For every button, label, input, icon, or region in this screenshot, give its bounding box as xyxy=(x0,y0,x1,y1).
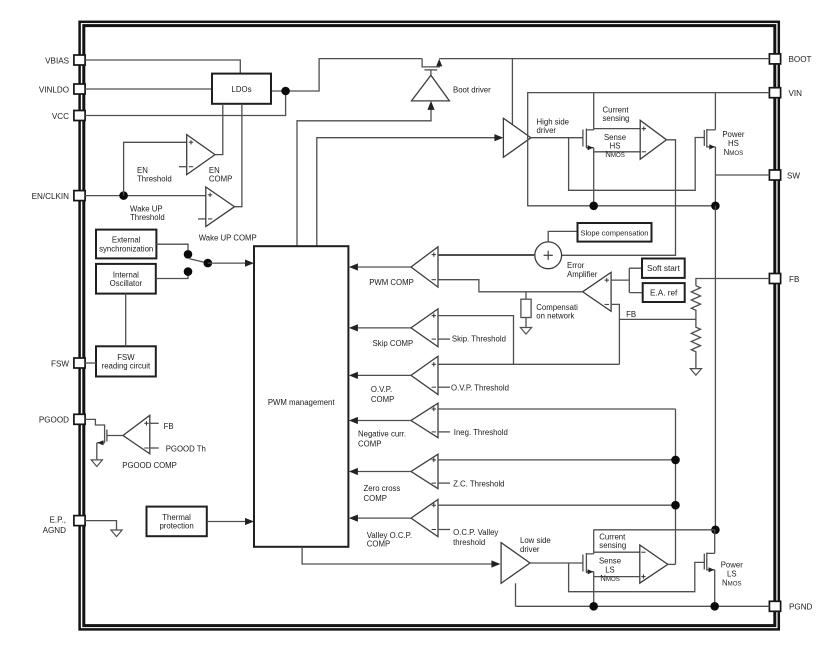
svg-text:driver: driver xyxy=(520,545,540,554)
svg-text:Threshold: Threshold xyxy=(130,213,165,222)
op-amp wake up COMP xyxy=(198,187,235,227)
op-amp LS current sense comparator xyxy=(640,545,668,583)
svg-text:Slope compensation: Slope compensation xyxy=(581,228,649,237)
wire summing node to PWM COMP + xyxy=(438,254,535,256)
node LDO output junction xyxy=(281,87,290,96)
svg-text:VCC: VCC xyxy=(52,112,69,121)
svg-text:threshold: threshold xyxy=(453,538,485,547)
svg-text:sensing: sensing xyxy=(599,541,626,550)
svg-text:VIN: VIN xyxy=(789,89,803,98)
svg-text:NMOS: NMOS xyxy=(724,148,744,157)
wire HS comparator output to summing node xyxy=(562,140,676,256)
svg-text:LS: LS xyxy=(605,565,615,574)
transistor boot diode-FET xyxy=(422,59,442,76)
svg-text:Boot driver: Boot driver xyxy=(453,85,491,94)
comparator stack: op-amp PWM COMP xyxy=(349,247,535,287)
wire EN/CLKIN to wake up comp xyxy=(85,195,206,197)
op-amp high side driver U-HS xyxy=(503,118,531,157)
pin VINLDO xyxy=(74,84,85,94)
op-amp input polarity marks xyxy=(144,126,646,578)
wire thermal protection to PWM management xyxy=(207,521,247,523)
ground PGOOD FET xyxy=(91,460,102,467)
pin VIN xyxy=(769,88,780,98)
op-amp low side driver xyxy=(501,543,530,584)
op-amp error amplifier xyxy=(583,272,612,311)
pin SW xyxy=(769,170,780,180)
node HS sense source junction xyxy=(589,202,598,211)
wire LS driver output to gates xyxy=(530,562,704,591)
wire EN comp output to LDOs xyxy=(215,104,223,155)
svg-text:Threshold: Threshold xyxy=(137,175,172,184)
box thermal protection xyxy=(147,507,207,537)
svg-text:on network: on network xyxy=(536,312,574,321)
wire summing node to slope compensation xyxy=(548,231,577,242)
wire VIN pin to HS drain rail xyxy=(715,92,769,94)
svg-text:COMP: COMP xyxy=(367,540,390,549)
wire EN junction to EN comp + xyxy=(124,142,187,195)
pin VCC xyxy=(74,111,85,121)
wire PGOOD pin to pull-down FET xyxy=(85,419,105,428)
wire PGND rail xyxy=(516,605,770,607)
wire EA output to PWM COMP - xyxy=(438,280,583,292)
node switch contact A xyxy=(184,250,193,259)
svg-text:Amplifier: Amplifier xyxy=(567,270,598,279)
summing node slope adder xyxy=(535,242,562,269)
svg-text:HS: HS xyxy=(728,139,739,148)
svg-text:PGOOD COMP: PGOOD COMP xyxy=(122,461,177,470)
node switch contact B xyxy=(184,267,193,276)
wire int osc to switch xyxy=(156,276,188,279)
svg-text:E.A. ref: E.A. ref xyxy=(650,289,678,298)
svg-text:NMOS: NMOS xyxy=(600,574,620,583)
svg-text:NMOS: NMOS xyxy=(722,578,742,587)
ground AGND xyxy=(111,530,122,537)
resistor R1 FB top xyxy=(691,286,700,320)
svg-text:O.V.P.: O.V.P. xyxy=(371,385,392,394)
op-amp PGOOD COMP xyxy=(123,415,159,454)
wire FB pin to divider xyxy=(696,279,770,286)
svg-text:COMP: COMP xyxy=(371,395,394,404)
box PWM management xyxy=(254,246,348,547)
pin E.P. AGND xyxy=(74,516,85,526)
switch blade oscillator select xyxy=(190,259,208,263)
svg-text:FSW: FSW xyxy=(51,359,69,368)
svg-text:Skip. Threshold: Skip. Threshold xyxy=(452,334,506,343)
svg-text:sensing: sensing xyxy=(603,114,630,123)
svg-text:Soft start: Soft start xyxy=(647,264,680,273)
pin EN/CLKIN xyxy=(74,191,85,201)
svg-text:PWM COMP: PWM COMP xyxy=(369,278,414,287)
pin FSW xyxy=(74,358,85,368)
transistor PGOOD pull-down NMOS xyxy=(97,428,123,459)
wire VBIAS to LDOs top xyxy=(85,60,240,74)
svg-text:Power: Power xyxy=(721,560,744,569)
box internal oscillator xyxy=(96,264,156,294)
wire EA + input fork xyxy=(611,268,643,292)
pin BOOT xyxy=(769,54,780,64)
wire internal oscillator to FSW reading xyxy=(125,294,127,347)
svg-text:NMOS: NMOS xyxy=(605,150,625,159)
node switch pole xyxy=(204,259,213,268)
svg-text:HS: HS xyxy=(610,142,621,151)
wire E.P. AGND to ground xyxy=(85,521,117,530)
svg-text:VBIAS: VBIAS xyxy=(45,56,69,65)
svg-text:LDOs: LDOs xyxy=(232,85,252,94)
wire LS sense signal vertical xyxy=(675,409,677,564)
op-amp negative current COMP xyxy=(349,403,676,438)
svg-text:Ineg. Threshold: Ineg. Threshold xyxy=(454,428,508,437)
svg-text:PWM management: PWM management xyxy=(268,398,336,407)
node EN junction xyxy=(119,191,128,200)
svg-text:O.C.P. Valley: O.C.P. Valley xyxy=(453,528,498,537)
svg-text:PGND: PGND xyxy=(789,603,813,612)
wire PWM management to high side driver input xyxy=(317,138,500,247)
wire switch pole to PWM management xyxy=(208,262,247,264)
svg-text:PGOOD: PGOOD xyxy=(39,416,69,425)
wire FSW pin xyxy=(85,362,96,364)
wire SW long vertical to low side xyxy=(714,206,716,530)
chip outer border xyxy=(80,22,779,630)
wire BOOT rail down to high side driver supply xyxy=(511,59,513,126)
node LS power source junction xyxy=(710,602,719,611)
box E.A. ref xyxy=(643,283,685,302)
op-amp EN COMP xyxy=(179,135,215,175)
pin PGOOD xyxy=(74,414,85,424)
svg-text:protection: protection xyxy=(159,522,193,531)
op-amp zero cross COMP xyxy=(349,454,676,489)
op-amp valley O.C.P. COMP xyxy=(349,500,676,537)
transistor sense LS NMOS xyxy=(583,530,594,607)
transistor power LS NMOS xyxy=(704,530,714,607)
svg-text:BOOT: BOOT xyxy=(789,55,812,64)
wire BOOT rail to BOOT pin xyxy=(439,58,769,60)
pin PGND xyxy=(769,601,780,611)
box soft start xyxy=(642,259,685,278)
svg-text:Negative curr.: Negative curr. xyxy=(358,429,406,438)
wire HS comparator + input xyxy=(594,128,641,130)
wire PWM management to low side driver xyxy=(302,547,497,564)
wire ext sync to switch xyxy=(156,244,188,250)
svg-text:COMP: COMP xyxy=(358,439,381,448)
wire LS comparator output up xyxy=(668,563,676,565)
wire VCC to LDO output node xyxy=(85,91,286,116)
op-amp HS current sense comparator xyxy=(640,120,666,159)
svg-text:COMP: COMP xyxy=(364,494,387,503)
op-amp Skip COMP xyxy=(349,309,514,364)
svg-text:E.P.,: E.P., xyxy=(50,516,67,525)
box LDOs xyxy=(212,74,271,104)
wire SW node to SW pin xyxy=(715,174,769,176)
labels: block names xyxy=(99,85,745,588)
wire LS driver ground xyxy=(515,583,517,606)
node LS sense source junction xyxy=(589,602,598,611)
svg-text:SW: SW xyxy=(787,171,800,180)
pin VBIAS xyxy=(74,55,85,65)
svg-text:LS: LS xyxy=(727,569,737,578)
wire FB divider tap line xyxy=(619,318,696,320)
node HS power source junction xyxy=(711,202,720,211)
svg-text:AGND: AGND xyxy=(43,526,67,535)
svg-text:VINLDO: VINLDO xyxy=(39,85,69,94)
svg-text:EN/CLKIN: EN/CLKIN xyxy=(32,192,69,201)
transistor power HS NMOS xyxy=(704,93,715,206)
node ZC junction xyxy=(671,456,680,465)
svg-text:Zero cross: Zero cross xyxy=(364,484,401,493)
svg-text:driver: driver xyxy=(537,126,557,135)
transistor sense HS NMOS xyxy=(583,93,594,206)
wire wake up comp output to LDOs xyxy=(235,104,242,207)
ground FB divider xyxy=(690,369,701,376)
labels: pin names xyxy=(32,56,70,535)
box external synchronization xyxy=(96,230,156,259)
wire LDOs output to boot rail xyxy=(271,59,422,91)
svg-text:Power: Power xyxy=(722,130,745,139)
node valley junction xyxy=(671,501,680,510)
capacitor compensation network xyxy=(520,292,531,334)
svg-text:COMP: COMP xyxy=(209,175,232,184)
HS current sensing group box xyxy=(528,93,716,206)
wire EA - input to FB node xyxy=(611,304,619,364)
svg-text:Skip COMP: Skip COMP xyxy=(373,339,414,348)
svg-text:PGOOD Th: PGOOD Th xyxy=(166,445,206,454)
wire LS comparator + input xyxy=(594,576,640,578)
svg-text:FB: FB xyxy=(626,310,636,319)
svg-text:O.V.P. Threshold: O.V.P. Threshold xyxy=(451,383,509,392)
svg-text:reading circuit: reading circuit xyxy=(102,362,151,371)
svg-text:Z.C. Threshold: Z.C. Threshold xyxy=(453,479,504,488)
svg-text:Oscillator: Oscillator xyxy=(110,279,143,288)
op-amp O.V.P. COMP xyxy=(349,356,620,394)
svg-text:synchronization: synchronization xyxy=(99,244,153,253)
resistor R2 FB bottom xyxy=(691,319,700,368)
pin FB xyxy=(769,274,780,284)
op-amp boot driver xyxy=(412,75,450,101)
box FSW reading circuit xyxy=(96,346,156,376)
box slope compensation xyxy=(578,223,652,242)
wire VINLDO to LDOs left xyxy=(85,88,212,90)
wire LS comparator - input xyxy=(594,551,640,553)
svg-text:FB: FB xyxy=(164,422,174,431)
svg-text:FB: FB xyxy=(789,275,799,284)
svg-text:Wake UP COMP: Wake UP COMP xyxy=(199,233,257,242)
wire HS comparator - input xyxy=(594,151,641,153)
LS current sensing group box top xyxy=(594,529,715,531)
node SW to LS drain junction xyxy=(711,526,720,535)
wire PWM management to boot driver (arrow up) xyxy=(297,104,431,246)
wire HS driver output to gates xyxy=(531,138,704,191)
